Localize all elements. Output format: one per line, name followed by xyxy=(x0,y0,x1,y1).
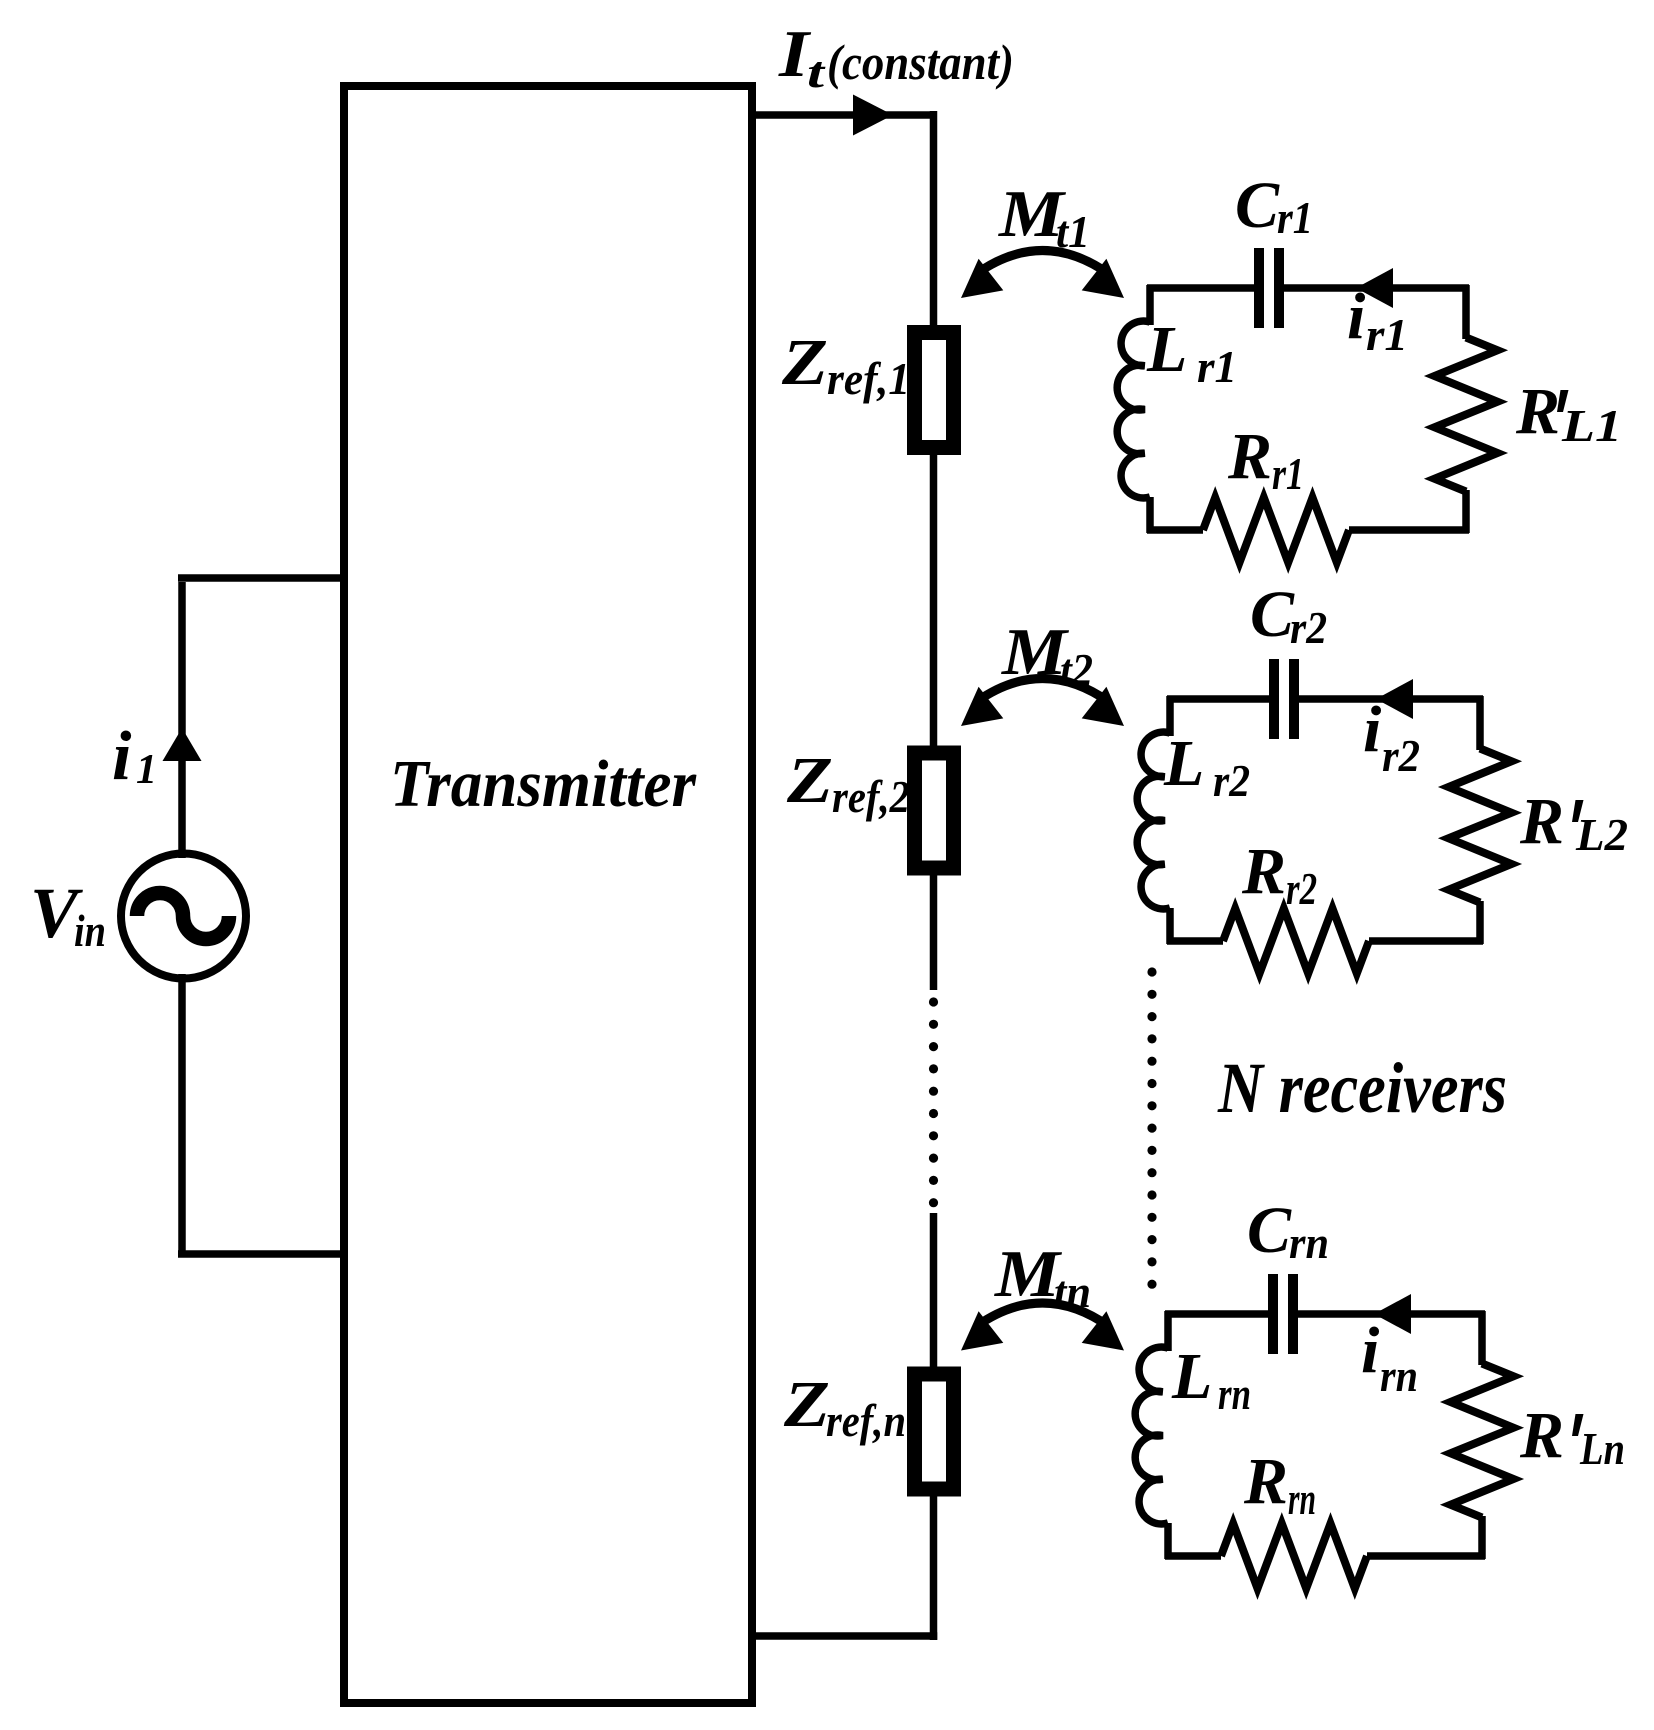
capacitor Cn plates xyxy=(1268,1274,1278,1354)
svg-text:rn: rn xyxy=(1218,1369,1251,1419)
current arrow i1 xyxy=(1356,268,1393,308)
svg-text:r1: r1 xyxy=(1366,310,1408,360)
capacitor C2 plates xyxy=(1269,659,1279,739)
svg-text:rn: rn xyxy=(1288,1474,1316,1524)
svg-text:r2: r2 xyxy=(1382,731,1420,781)
svg-text:r2: r2 xyxy=(1286,864,1317,914)
svg-text:(constant): (constant) xyxy=(827,34,1014,90)
svg-text:t1: t1 xyxy=(1056,207,1090,257)
svg-text:L2: L2 xyxy=(1575,810,1628,860)
receiver 2 right wire top xyxy=(1476,696,1484,750)
wire: bus bottom return to transmitter xyxy=(752,1632,937,1640)
bus wire segments xyxy=(930,111,938,335)
receiver 1 loop: top wire xyxy=(1147,284,1254,292)
svg-text:R: R xyxy=(1227,420,1272,493)
receiver 2 left wire xyxy=(1166,908,1174,944)
resistor Rr2 (horizontal zigzag) xyxy=(1223,909,1369,974)
svg-text:R: R xyxy=(1519,1399,1564,1472)
svg-text:rn: rn xyxy=(1289,1218,1329,1268)
resistor Rrn (horizontal zigzag) xyxy=(1221,1524,1367,1589)
svg-text:L1: L1 xyxy=(1561,401,1622,451)
svg-text:Z: Z xyxy=(783,1368,830,1441)
svg-text:r1: r1 xyxy=(1197,342,1237,392)
svg-text:N receivers: N receivers xyxy=(1217,1048,1507,1128)
receiver 1 left wire xyxy=(1146,497,1154,533)
inductor Lr2 coil xyxy=(1137,732,1170,909)
resistor RL1 (vertical zigzag) xyxy=(1435,338,1498,492)
receiver dotted continuation xyxy=(1147,967,1156,976)
current arrow i2 xyxy=(1376,679,1413,719)
mutual coupling Mt1 arrow xyxy=(976,251,1109,275)
svg-text:Z: Z xyxy=(786,744,833,817)
svg-text:R: R xyxy=(1519,785,1564,858)
resistor Rr1 (horizontal zigzag) xyxy=(1203,498,1349,563)
svg-text:i: i xyxy=(1347,280,1366,353)
receiver n loop: top wire xyxy=(1165,1310,1268,1318)
svg-text:ref,2: ref,2 xyxy=(832,772,910,822)
svg-text:t: t xyxy=(807,48,826,97)
svg-text:Transmitter: Transmitter xyxy=(390,747,697,821)
svg-text:r1: r1 xyxy=(1272,449,1304,499)
receiver 1 right wire top xyxy=(1462,285,1470,339)
svg-text:R: R xyxy=(1241,835,1286,908)
svg-text:1: 1 xyxy=(136,747,157,793)
svg-text:r2: r2 xyxy=(1213,756,1250,806)
svg-text:r1: r1 xyxy=(1277,193,1313,243)
svg-text:in: in xyxy=(74,905,106,956)
mutual coupling Mtn arrow xyxy=(976,1303,1109,1327)
wire: transmitter to bus (It) xyxy=(752,111,937,119)
svg-text:R: R xyxy=(1243,1445,1288,1518)
svg-text:L: L xyxy=(1146,313,1187,386)
svg-text:r2: r2 xyxy=(1290,603,1327,653)
impedance Zref2 xyxy=(915,753,954,868)
voltage source Vin (AC) xyxy=(121,854,246,979)
svg-text:C: C xyxy=(1235,169,1280,242)
receiver 2 right wire bottom xyxy=(1476,901,1484,944)
resistor RL2 (vertical zigzag) xyxy=(1449,749,1512,903)
transmitter block xyxy=(344,86,752,1703)
svg-text:tn: tn xyxy=(1054,1267,1091,1317)
svg-text:C: C xyxy=(1247,1194,1292,1267)
impedance Zrefn xyxy=(915,1374,954,1489)
svg-text:i: i xyxy=(1363,693,1382,766)
mutual coupling Mt2 arrow xyxy=(976,679,1109,703)
receiver n right wire bottom xyxy=(1478,1516,1486,1559)
inductor Lrn coil xyxy=(1135,1347,1168,1524)
svg-text:ref,n: ref,n xyxy=(826,1396,906,1446)
svg-text:Ln: Ln xyxy=(1579,1424,1625,1474)
receiver n left wire xyxy=(1164,1523,1172,1559)
bus dotted continuation xyxy=(929,997,938,1006)
svg-text:rn: rn xyxy=(1380,1351,1418,1401)
receiver 2 loop: top wire xyxy=(1167,695,1269,703)
inductor Lr1 coil xyxy=(1117,321,1150,498)
current arrow in xyxy=(1374,1294,1411,1334)
svg-text:i: i xyxy=(1361,1314,1380,1387)
receiver 2 bottom wire xyxy=(1369,937,1483,945)
receiver n bottom wire xyxy=(1367,1552,1485,1560)
wire: Vin bottom to transmitter xyxy=(178,974,186,1254)
svg-text:t2: t2 xyxy=(1060,645,1093,695)
receiver n right wire top xyxy=(1478,1311,1486,1365)
capacitor C1 plates xyxy=(1254,248,1264,328)
arrow i1 xyxy=(163,728,202,761)
svg-text:L: L xyxy=(1163,727,1204,800)
impedance Zref1 xyxy=(915,333,954,448)
svg-text:i: i xyxy=(112,718,132,795)
arrow It xyxy=(853,95,893,136)
wire: Vin top to transmitter xyxy=(178,582,186,858)
svg-text:R: R xyxy=(1515,375,1560,448)
svg-text:C: C xyxy=(1250,578,1295,651)
receiver 1 right wire bottom xyxy=(1462,490,1470,533)
svg-text:ref,1: ref,1 xyxy=(827,354,910,404)
svg-text:Z: Z xyxy=(781,326,828,399)
svg-text:M: M xyxy=(994,1237,1063,1311)
receiver 1 bottom wire xyxy=(1349,526,1469,534)
resistor RLn (vertical zigzag) xyxy=(1451,1364,1514,1518)
svg-text:L: L xyxy=(1171,1340,1212,1413)
